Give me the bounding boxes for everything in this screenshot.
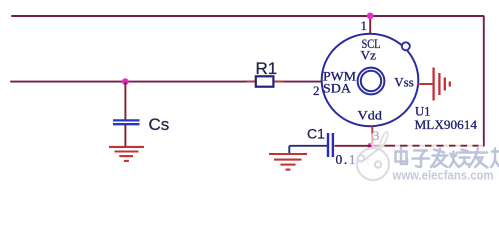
resistor R1 body bbox=[256, 76, 274, 86]
watermark logo tail swirl bbox=[380, 132, 388, 149]
capacitor Cs plate bottom bbox=[113, 123, 140, 125]
svg-text:Vz: Vz bbox=[361, 48, 377, 63]
watermark glyph fa bbox=[431, 149, 448, 168]
watermark glyph shao bbox=[450, 150, 470, 168]
pin 1 stub bbox=[369, 16, 371, 34]
wire Cs stem upper bbox=[124, 82, 126, 120]
IC U1 inner ring outer bbox=[358, 68, 385, 95]
wire net1 right vertical bbox=[483, 16, 485, 146]
capacitor Cs plate top bbox=[113, 119, 140, 121]
watermark logo small circle right bbox=[375, 161, 381, 167]
ground GND1 under Cs bbox=[109, 147, 144, 161]
ground GND3 under C1 bbox=[269, 154, 307, 170]
svg-text:1: 1 bbox=[361, 18, 368, 33]
svg-text:MLX90614: MLX90614 bbox=[415, 117, 478, 132]
watermark glyph zi bbox=[413, 151, 430, 168]
wire C1 ground stem bbox=[288, 146, 290, 154]
watermark glyph clipped at edge bbox=[491, 149, 499, 168]
capacitor C1 plate left bbox=[327, 133, 329, 157]
wire dash gaps from watermark overlap bbox=[395, 142, 495, 150]
wire net2 horizontal PWM/SDA bbox=[11, 81, 323, 83]
wire C1 to Vdd node bbox=[335, 145, 372, 147]
resistor R1 pin leads bbox=[247, 81, 284, 83]
IC U1 inner ring inner bbox=[361, 71, 381, 91]
junction dot J3 bbox=[367, 143, 373, 149]
pin Vss lead bbox=[418, 83, 434, 85]
value ghost overlay bbox=[347, 150, 375, 166]
IC U1 tab circle bbox=[402, 42, 410, 50]
junction dot J1 bbox=[367, 13, 374, 20]
wire net1 bottom horizontal to Vdd node bbox=[371, 145, 485, 147]
svg-text:2: 2 bbox=[313, 83, 320, 98]
svg-text:Vss: Vss bbox=[394, 75, 414, 90]
IC U1 body circle bbox=[322, 34, 419, 126]
watermark glyph dian bbox=[396, 148, 408, 165]
svg-text:www.elecfans.com: www.elecfans.com bbox=[392, 169, 494, 183]
wire ground to C1 left plate bbox=[289, 145, 327, 147]
pin 3 lead bbox=[371, 126, 373, 146]
junction dot J2 bbox=[122, 78, 129, 85]
capacitor C1 plate right bbox=[332, 133, 334, 157]
watermark logo circle bbox=[357, 148, 389, 180]
svg-text:C1: C1 bbox=[307, 126, 325, 142]
watermark logo diagonal bbox=[363, 148, 380, 162]
svg-text:Vdd: Vdd bbox=[358, 108, 383, 123]
ground GND2 rotated signal ground bbox=[434, 68, 450, 101]
watermark glyph backing band bbox=[392, 147, 499, 168]
svg-text:Cs: Cs bbox=[149, 115, 170, 134]
svg-text:R1: R1 bbox=[256, 59, 278, 78]
wire Cs lower stem bbox=[124, 125, 126, 147]
watermark glyph you bbox=[469, 149, 488, 168]
watermark logo tail whitening bbox=[370, 130, 386, 150]
watermark logo small circle left bbox=[358, 155, 364, 161]
wire net1 top horizontal bbox=[12, 15, 484, 17]
svg-text:SDA: SDA bbox=[323, 81, 352, 96]
